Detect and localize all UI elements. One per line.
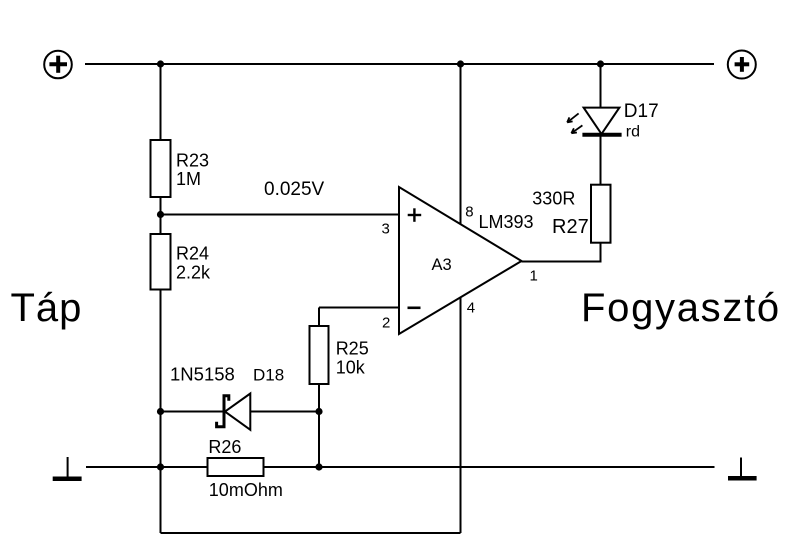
LED D17: [582, 108, 621, 135]
resistor R27: [591, 185, 611, 243]
label D17 rd: [624, 101, 659, 140]
zener diode D18 triangle: [225, 394, 250, 430]
label R23 1M: [176, 151, 209, 189]
svg-text:3: 3: [382, 220, 390, 237]
wire inverting input: [319, 307, 399, 309]
junction dot node 0.025V: [157, 211, 164, 218]
svg-text:2.2k: 2.2k: [176, 263, 211, 283]
op-amp minus input mark: [408, 306, 421, 309]
resistor R26 (shunt): [208, 458, 264, 476]
zener diode D18 cathode bar: [217, 396, 229, 427]
op-amp plus input mark: [408, 208, 422, 222]
resistor R25: [310, 326, 329, 384]
wire pin 4 vertical: [460, 298, 462, 534]
ground symbol left: [53, 457, 82, 479]
svg-text:1N5158: 1N5158: [170, 364, 235, 385]
svg-text:10k: 10k: [336, 357, 366, 377]
svg-text:2: 2: [382, 315, 390, 332]
junction dot ground rail right: [315, 463, 322, 470]
wire R25 bottom lead down to rail: [318, 384, 320, 467]
resistor R23: [151, 140, 171, 197]
svg-text:R27: R27: [552, 216, 589, 238]
svg-text:D17: D17: [624, 101, 659, 122]
resistor R24: [151, 234, 171, 290]
wire left vertical below R24 down to bottom loop: [160, 290, 162, 534]
wire left vertical R23-R24 link: [160, 197, 162, 234]
junction dot diode left: [157, 408, 164, 415]
wire R23 top lead from rail: [160, 64, 162, 140]
LED light arrow 1: [567, 113, 578, 122]
svg-text:10mOhm: 10mOhm: [209, 480, 283, 500]
svg-text:R23: R23: [176, 151, 209, 171]
wire bottom ground rail: [86, 466, 715, 468]
svg-text:1M: 1M: [176, 169, 201, 189]
wire non-inverting input (node 0.025V): [161, 214, 400, 216]
svg-text:1: 1: [530, 268, 538, 285]
junction dot ground rail left: [157, 463, 164, 470]
junction dot rail-LED: [597, 60, 604, 67]
wire pin 8 vertical from rail: [460, 64, 462, 224]
op-amp A3 triangle: [399, 187, 522, 334]
junction dot rail-R23: [157, 60, 164, 67]
plus terminal left (supply +): [44, 51, 72, 79]
junction dot rail-pin8: [457, 60, 464, 67]
wire R25 top lead: [318, 308, 320, 327]
svg-text:0.025V: 0.025V: [264, 179, 325, 200]
wire diode D18 cathode side: [251, 411, 320, 413]
label R24 2.2k: [176, 243, 211, 282]
LED light arrow 2: [571, 125, 582, 133]
svg-text:R24: R24: [176, 243, 209, 263]
svg-text:Táp: Táp: [11, 286, 83, 330]
wire LED anode lead from rail: [600, 64, 602, 108]
wire bottom loop horizontal: [161, 532, 461, 534]
wire diode D18 anode side: [161, 411, 225, 413]
svg-text:D18: D18: [253, 366, 284, 385]
label R25 10k: [336, 338, 369, 377]
svg-text:rd: rd: [626, 123, 640, 140]
svg-text:330R: 330R: [532, 189, 575, 209]
svg-text:LM393: LM393: [479, 212, 534, 232]
junction dot diode right: [315, 408, 322, 415]
svg-text:4: 4: [467, 300, 475, 317]
wire top positive rail: [85, 63, 714, 65]
svg-text:8: 8: [465, 204, 473, 221]
svg-text:A3: A3: [432, 256, 452, 274]
plus terminal right (load +): [728, 51, 756, 79]
wire op-amp output pin 1: [522, 261, 602, 263]
wire R27 bottom lead: [600, 243, 602, 262]
svg-text:R26: R26: [208, 437, 241, 457]
wire LED cathode to R27: [600, 135, 602, 185]
ground symbol right: [728, 458, 757, 479]
svg-text:R25: R25: [336, 338, 369, 358]
svg-text:Fogyasztó: Fogyasztó: [581, 286, 781, 330]
